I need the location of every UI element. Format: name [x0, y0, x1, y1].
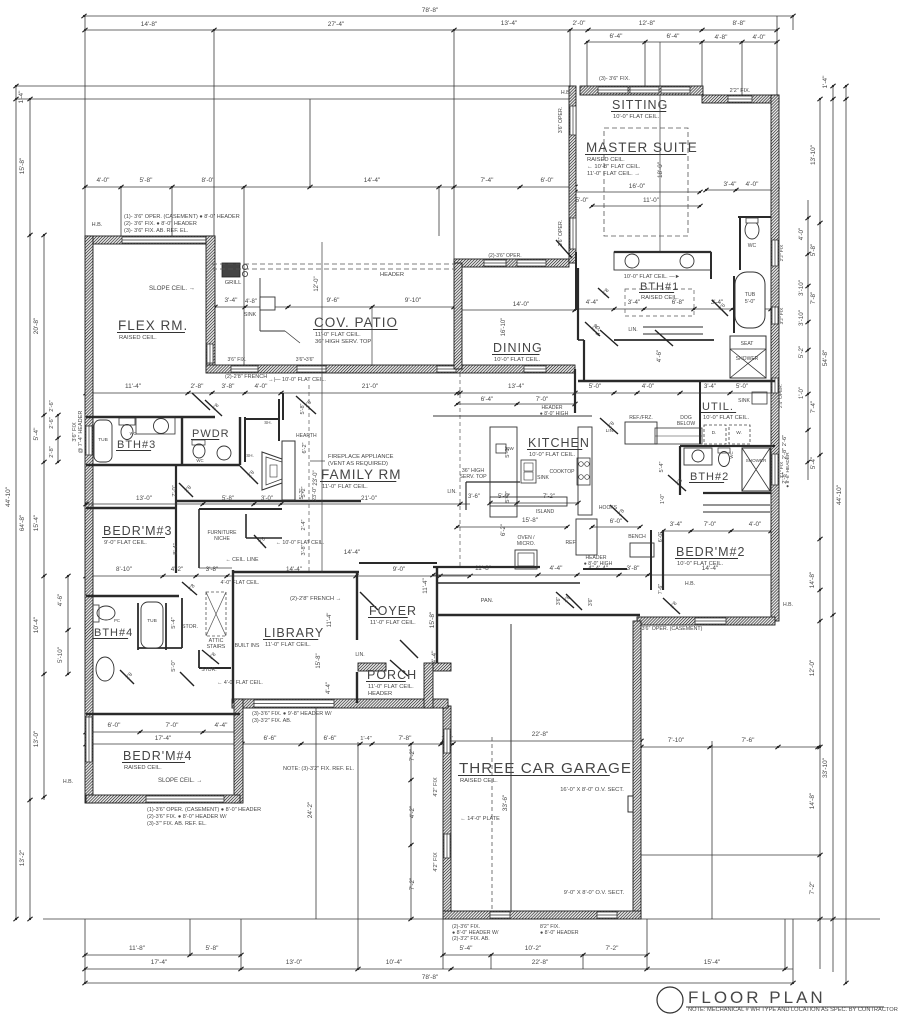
svg-text:HEADER: HEADER	[368, 691, 392, 697]
door: bth2	[668, 475, 686, 491]
svg-text:4'-0": 4'-0"	[97, 177, 111, 184]
wall: sitting bay north	[580, 86, 703, 95]
interior wall: bedrm3 east x176	[175, 464, 177, 573]
window: garage west 2	[444, 834, 450, 858]
svg-text:6'-4": 6'-4"	[610, 33, 624, 40]
family ceiling dashed + 23'-0	[308, 385, 310, 573]
svg-text:3'-8": 3'-8"	[206, 566, 218, 573]
svg-text:3'6" OPER.: 3'6" OPER.	[558, 107, 564, 134]
svg-text:H.B.: H.B.	[561, 90, 571, 96]
svg-text:3'-10": 3'-10"	[798, 280, 805, 296]
svg-text:20'-8": 20'-8"	[33, 317, 40, 334]
dashed: bth1 ceiling rect	[625, 289, 694, 316]
interior wall: util west x700	[699, 381, 701, 444]
svg-text:15'-8": 15'-8"	[522, 517, 538, 524]
wall: house west (flex down to bedrm4)	[85, 236, 93, 803]
svg-text:PWDR: PWDR	[192, 428, 230, 440]
svg-text:5'-8": 5'-8"	[140, 177, 154, 184]
svg-text:DINING: DINING	[493, 341, 543, 355]
svg-text:7'-4": 7'-4"	[810, 401, 817, 413]
left dimension verticals	[15, 86, 17, 919]
svg-text:STOR.: STOR.	[182, 624, 198, 630]
svg-text:4'-0": 4'-0"	[749, 521, 761, 528]
interior wall: hearth/family west	[244, 417, 246, 462]
svg-text:HEARTH: HEARTH	[296, 433, 317, 439]
kitchen dims y393 row	[457, 392, 775, 394]
vertical dim 18'-0 master	[659, 42, 661, 252]
fixture: ref/frz	[625, 422, 657, 444]
fixture: bench	[630, 543, 654, 557]
svg-text:TUB: TUB	[98, 437, 108, 443]
svg-text:6'-6": 6'-6"	[264, 735, 278, 742]
interior wall: hall header y569	[583, 568, 627, 570]
svg-text:MASTER SUITE: MASTER SUITE	[586, 140, 698, 155]
svg-text:33'-10": 33'-10"	[822, 757, 829, 778]
svg-text:SINK: SINK	[738, 398, 750, 404]
window: dining 2	[517, 260, 546, 266]
svg-text:13'-4": 13'-4"	[508, 383, 524, 390]
svg-text:13'-4": 13'-4"	[501, 20, 518, 27]
svg-text:7'-4": 7'-4"	[481, 177, 495, 184]
interior wall: pwdr east	[239, 417, 241, 465]
svg-text:78'-8": 78'-8"	[422, 974, 439, 981]
patio mid vline	[371, 307, 373, 366]
interior wall: bth1 south / util north y381	[578, 380, 775, 382]
fixture: attic stairs dashed	[206, 592, 226, 636]
svg-text:FLOOR PLAN: FLOOR PLAN	[688, 988, 826, 1007]
svg-text:7'-8": 7'-8"	[810, 292, 817, 304]
svg-text:(3)-3'2" FIX. AB.: (3)-3'2" FIX. AB.	[252, 718, 292, 724]
svg-text:3'-4": 3'-4"	[724, 181, 738, 188]
door: bth4	[120, 670, 134, 684]
svg-text:SERV. TOP: SERV. TOP	[459, 474, 487, 480]
svg-text:6'-0": 6'-0"	[541, 177, 555, 184]
door: niche	[254, 535, 266, 548]
door: attic	[202, 650, 219, 664]
fixture: bth4 wc	[97, 606, 115, 620]
svg-text:3'1" FIX: 3'1" FIX	[779, 461, 785, 479]
window: west wall bth3 tub	[86, 426, 92, 455]
bedrm2 closet shelves	[703, 504, 770, 506]
interior wall: library east lower	[356, 672, 358, 703]
wall: patio/family north	[206, 365, 575, 373]
family north dim row y393	[86, 392, 460, 394]
fixture: util washer dryer dashed	[704, 425, 726, 444]
svg-text:RAISED CEIL.: RAISED CEIL.	[587, 157, 625, 163]
svg-text:2'2" FIX: 2'2" FIX	[779, 244, 785, 262]
wall: garage east	[633, 621, 641, 918]
svg-text:● 8'-0" HIGH: ● 8'-0" HIGH	[540, 411, 569, 417]
svg-text:NOTE: (3)-3'2" FIX. REF. EL.: NOTE: (3)-3'2" FIX. REF. EL.	[283, 766, 355, 772]
svg-text:STAIRS: STAIRS	[207, 644, 226, 650]
door: bth1 r	[655, 330, 673, 346]
svg-text:BTH#2: BTH#2	[690, 471, 729, 483]
window: flex east lower	[207, 344, 213, 363]
fixture: master shower	[730, 336, 766, 378]
svg-text:5'-8": 5'-8"	[810, 244, 817, 256]
svg-text:SLOPE CEIL. →: SLOPE CEIL. →	[149, 285, 195, 292]
wall: garage east nub	[628, 796, 633, 812]
fixture: pwdr wc + sink	[193, 444, 205, 458]
fixture: kitchen sink	[521, 460, 536, 483]
svg-text:10'-0" FLAT CEIL.: 10'-0" FLAT CEIL.	[494, 357, 541, 363]
interior wall: kitchen/family y567	[433, 566, 540, 568]
garage interior line	[510, 624, 512, 911]
kitchen upper cab line y416	[433, 415, 592, 417]
svg-text:H.B.: H.B.	[92, 222, 103, 228]
window: east 1	[772, 240, 778, 266]
window: family north	[524, 366, 546, 372]
svg-text:5'-0": 5'-0"	[171, 660, 177, 671]
wall: library/porch south	[232, 699, 448, 708]
svg-text:BTH#4: BTH#4	[94, 627, 133, 639]
svg-text:7'-0": 7'-0"	[172, 485, 178, 496]
fixture: master tub	[735, 272, 765, 328]
svg-text:LIN.: LIN.	[447, 489, 456, 495]
svg-text:UTIL.: UTIL.	[702, 401, 734, 413]
svg-text:(2)-3'2" FIX. AB.: (2)-3'2" FIX. AB.	[452, 936, 490, 942]
svg-text:11'-0" FLAT CEIL.: 11'-0" FLAT CEIL.	[315, 332, 361, 338]
svg-text:6'-0": 6'-0"	[610, 518, 622, 525]
svg-text:W.: W.	[736, 430, 742, 436]
dashed: master ceiling break	[604, 128, 688, 236]
dashed: patio header line	[212, 263, 456, 265]
svg-text:LIBRARY: LIBRARY	[264, 626, 324, 640]
window: sitting 3	[661, 87, 690, 93]
svg-text:24'-2": 24'-2"	[307, 801, 314, 818]
interior wall: bth3 north (y415)	[86, 416, 215, 419]
svg-text:BTH#3: BTH#3	[117, 439, 156, 451]
fixture: master closet shelves	[466, 481, 520, 483]
svg-text:COV. PATIO: COV. PATIO	[314, 315, 398, 330]
fixture: bth4 shower oval	[96, 657, 114, 681]
svg-text:15'-4": 15'-4"	[704, 959, 721, 966]
svg-text:7'-8": 7'-8"	[399, 735, 413, 742]
svg-text:16'-10": 16'-10"	[501, 318, 507, 337]
svg-text:11'-4": 11'-4"	[422, 578, 429, 593]
svg-text:(3)- 3'6" FIX.: (3)- 3'6" FIX.	[599, 76, 630, 82]
window: east 3	[772, 378, 778, 393]
svg-text:SINK: SINK	[537, 475, 549, 481]
svg-text:15'-4": 15'-4"	[33, 514, 40, 531]
svg-text:(2)- 3'6" FIX. ● 8'-0" HEADER: (2)- 3'6" FIX. ● 8'-0" HEADER	[124, 221, 197, 227]
door: master entry	[556, 240, 572, 258]
patio serv counter	[259, 278, 261, 331]
svg-text:10'-4": 10'-4"	[33, 616, 40, 633]
svg-text:64'-8": 64'-8"	[19, 514, 26, 531]
svg-text:10'-0" FLAT CEIL.: 10'-0" FLAT CEIL.	[677, 561, 724, 567]
interior wall: library west	[232, 570, 234, 703]
door: butler 2	[585, 322, 600, 336]
svg-text:(1)- 3'6" OPER. (CASEMENT) ● 8: (1)- 3'6" OPER. (CASEMENT) ● 8'-0" HEADE…	[124, 214, 240, 220]
door: porch entry	[390, 660, 408, 676]
svg-text:4'-0" FLAT CEIL.: 4'-0" FLAT CEIL.	[221, 580, 260, 586]
svg-text:6'-6": 6'-6"	[324, 735, 338, 742]
svg-text:3'2" FIX: 3'2" FIX	[779, 307, 785, 325]
svg-text:2'-6": 2'-6"	[49, 400, 55, 411]
svg-text:@ 7'-4" HEADER: @ 7'-4" HEADER	[78, 411, 84, 454]
window: library south	[254, 700, 334, 707]
svg-text:● 8'-0" HEADER: ● 8'-0" HEADER	[540, 930, 579, 936]
wall: garage west	[443, 706, 451, 911]
svg-text:4'-4": 4'-4"	[550, 565, 564, 572]
svg-text:13'-0": 13'-0"	[136, 495, 152, 502]
svg-text:BEDR'M#3: BEDR'M#3	[103, 524, 172, 538]
svg-text:5'-2": 5'-2"	[301, 486, 307, 497]
interior wall: bth2 south y493	[703, 492, 771, 494]
patio dim row y307	[215, 306, 454, 308]
interior wall: bth1 south y340	[614, 339, 714, 341]
interior wall: bth2 west x680	[679, 446, 681, 495]
dashed: garage storage line	[491, 737, 493, 910]
svg-text:13'-0": 13'-0"	[286, 959, 303, 966]
svg-text:PC: PC	[114, 618, 120, 623]
door: foyer/family	[400, 640, 418, 658]
svg-text:SHOWER: SHOWER	[736, 356, 759, 362]
window: patio 3	[437, 366, 456, 372]
svg-text:3'-8": 3'-8"	[301, 544, 307, 555]
svg-text:RAISED CEIL.: RAISED CEIL.	[641, 295, 679, 301]
svg-text:18'-0": 18'-0"	[657, 162, 664, 178]
door: bedrm3	[240, 466, 258, 484]
wall: bedrm2 south	[637, 617, 775, 625]
svg-text:2'-0": 2'-0"	[573, 20, 587, 27]
kitchen 15'-8 dim row y527	[457, 526, 567, 528]
svg-text:BEDR'M#4: BEDR'M#4	[123, 749, 192, 763]
svg-text:← 14'-0" PLATE: ← 14'-0" PLATE	[460, 816, 500, 822]
svg-text:3'-4": 3'-4"	[628, 299, 640, 306]
window: garage south 1	[490, 912, 510, 918]
window: patio 2	[297, 366, 326, 372]
svg-text:● 8'-6" HEADER: ● 8'-6" HEADER	[785, 452, 791, 488]
svg-text:7'-6": 7'-6"	[658, 584, 664, 595]
svg-text:5'-4": 5'-4"	[810, 457, 817, 469]
svg-text:8'-4": 8'-4"	[173, 543, 179, 554]
svg-text:14'-8": 14'-8"	[141, 21, 158, 28]
bedrm4 dim rows	[86, 731, 237, 733]
svg-text:36" HIGH SERV. TOP: 36" HIGH SERV. TOP	[315, 339, 371, 345]
svg-text:5'-4": 5'-4"	[171, 617, 177, 628]
svg-text:10'-0" FLAT CEIL. —►: 10'-0" FLAT CEIL. —►	[624, 274, 680, 280]
svg-text:4'-4": 4'-4"	[326, 682, 332, 694]
svg-text:5'-8": 5'-8"	[206, 945, 220, 952]
svg-text:6'-2": 6'-2"	[501, 524, 507, 536]
svg-text:7'-2": 7'-2"	[606, 945, 620, 952]
door: pwdr	[205, 400, 222, 416]
svg-text:21'-0": 21'-0"	[361, 495, 377, 502]
svg-text:7'-6": 7'-6"	[742, 737, 756, 744]
svg-text:13'-10": 13'-10"	[810, 144, 817, 165]
svg-text:7'-0": 7'-0"	[166, 722, 180, 729]
svg-text:7'-10": 7'-10"	[668, 737, 685, 744]
svg-text:PORCH: PORCH	[367, 668, 417, 682]
svg-text:12'-0": 12'-0"	[314, 276, 320, 291]
fixture: kitchen center band	[578, 427, 592, 515]
svg-text:THREE CAR GARAGE: THREE CAR GARAGE	[459, 760, 632, 777]
svg-text:4'-6": 4'-6"	[57, 594, 64, 606]
svg-text:← CEIL. LINE: ← CEIL. LINE	[225, 557, 259, 563]
door: util	[600, 418, 618, 434]
svg-text:6'-2": 6'-2"	[302, 442, 308, 453]
window: east 4	[772, 454, 778, 485]
interior wall: wc nook left	[739, 217, 741, 270]
dimension line: overall width 78'-8" (top)	[84, 15, 793, 17]
svg-text:44'-10": 44'-10"	[5, 486, 12, 507]
svg-text:15'-8": 15'-8"	[316, 653, 322, 668]
bedrm3 dim row y576	[86, 575, 470, 577]
svg-text:5'-0": 5'-0"	[745, 299, 756, 305]
svg-text:4'-4": 4'-4"	[215, 722, 229, 729]
door: closet bth4	[180, 672, 194, 686]
svg-text:● 8'-0" HIGH: ● 8'-0" HIGH	[584, 561, 613, 567]
svg-text:4'2" FIX: 4'2" FIX	[433, 852, 439, 872]
dimension line: sitting bay 6'-4 / 6'-4 / 4'-8 / 4'-0	[587, 41, 777, 43]
svg-text:LIN.: LIN.	[355, 652, 364, 658]
fixture: kitchen island	[490, 497, 567, 506]
svg-text:SEAT: SEAT	[741, 341, 754, 347]
door: bedrm2	[610, 505, 628, 522]
svg-text:BEDR'M#2: BEDR'M#2	[676, 545, 745, 559]
svg-text:(2)-3'6" FIX. ● 8'-0" HEADER: (2)-3'6" FIX. ● 8'-0" HEADER W/	[147, 814, 227, 820]
svg-text:8'-8": 8'-8"	[733, 20, 747, 27]
fixture: ref 2	[576, 519, 597, 555]
svg-text:10'-2": 10'-2"	[525, 945, 542, 952]
svg-text:14'-4": 14'-4"	[364, 177, 381, 184]
fixture: kitchen west counter	[490, 427, 517, 517]
svg-text:14'-8": 14'-8"	[809, 571, 816, 588]
svg-text:BTH#1: BTH#1	[640, 281, 679, 293]
svg-text:7'-0": 7'-0"	[536, 396, 548, 403]
window: patio 1	[231, 366, 258, 372]
svg-text:2'4" OPER.: 2'4" OPER.	[778, 384, 784, 408]
interior wall: pantry south y615	[437, 614, 640, 616]
door: bth1 l	[600, 330, 618, 346]
svg-text:1'-0": 1'-0"	[660, 494, 666, 504]
fixture: oven micro	[515, 550, 537, 569]
svg-text:5'-4": 5'-4"	[33, 427, 40, 441]
wall: flex east	[206, 236, 215, 371]
svg-text:(VENT AS REQUIRED): (VENT AS REQUIRED)	[328, 461, 388, 467]
svg-text:9'-0" X 8'-0" O.V. SECT.: 9'-0" X 8'-0" O.V. SECT.	[564, 890, 625, 896]
fixture: master wc	[745, 221, 759, 239]
interior wall: bedrm3 north y508	[86, 507, 176, 509]
svg-text:3'-4": 3'-4"	[670, 521, 682, 528]
svg-text:78'-8": 78'-8"	[422, 7, 439, 14]
svg-text:RAISED CEIL.: RAISED CEIL.	[124, 765, 162, 771]
svg-text:WC: WC	[729, 451, 734, 458]
interior wall: util west x575	[574, 369, 576, 413]
svg-text:→|— 10'-0" FLAT CEIL.: →|— 10'-0" FLAT CEIL.	[268, 377, 326, 383]
wall: house east	[771, 95, 779, 621]
interior wall: master west lower stub	[575, 252, 577, 310]
svg-text:11'-4": 11'-4"	[327, 613, 333, 628]
svg-text:4'-0": 4'-0"	[753, 34, 767, 41]
svg-text:13'-0": 13'-0"	[33, 730, 40, 747]
svg-text:2'2" FIX.: 2'2" FIX.	[730, 88, 751, 94]
svg-text:3'6" FIX.: 3'6" FIX.	[228, 357, 247, 363]
svg-text:4'-4": 4'-4"	[586, 299, 598, 306]
svg-text:← 10'-0" FLAT CEIL.: ← 10'-0" FLAT CEIL.	[276, 540, 325, 546]
fixture: bth4 tub	[141, 602, 163, 648]
window: west wall bedrm4	[86, 717, 92, 762]
svg-text:11'-8": 11'-8"	[129, 945, 146, 952]
svg-text:10'-4": 10'-4"	[386, 959, 403, 966]
svg-text:17'-4": 17'-4"	[155, 735, 172, 742]
svg-text:ISLAND: ISLAND	[536, 509, 555, 515]
fixture: hearth slab	[282, 441, 295, 500]
svg-text:3'-8": 3'-8"	[627, 565, 641, 572]
wall: bedrm4 east	[234, 699, 243, 803]
svg-text:PAN.: PAN.	[481, 598, 494, 604]
interior wall: bth3 south (y463)	[86, 464, 240, 467]
bottom dimension row 2	[85, 968, 793, 970]
svg-text:9'-6": 9'-6"	[327, 297, 341, 304]
svg-text:4'-0": 4'-0"	[798, 228, 805, 240]
svg-text:KITCHEN: KITCHEN	[528, 436, 590, 450]
svg-text:(3)-3'" FIX. AB. REF. EL.: (3)-3'" FIX. AB. REF. EL.	[147, 821, 207, 827]
svg-text:1'-4": 1'-4"	[18, 90, 25, 104]
svg-text:22'-8": 22'-8"	[532, 731, 549, 738]
svg-text:6'-0": 6'-0"	[658, 532, 664, 543]
fixture: bth3 tub	[94, 420, 112, 462]
dim verticals y187 row	[120, 187, 122, 236]
svg-text:← 10'-8" FLAT CEIL.: ← 10'-8" FLAT CEIL.	[587, 164, 641, 170]
svg-text:14'-8": 14'-8"	[809, 792, 816, 809]
bedrm4 north wall	[86, 713, 240, 715]
svg-text:4'-0": 4'-0"	[255, 383, 269, 390]
svg-text:STOR.: STOR.	[201, 667, 216, 673]
interior wall: bedrm2 west upper x663	[662, 531, 664, 590]
svg-text:16'-0" X 8'-0" O.V. SECT.: 16'-0" X 8'-0" O.V. SECT.	[560, 787, 624, 793]
bottom overall 78'-8	[85, 982, 793, 984]
svg-text:12'-8": 12'-8"	[639, 20, 656, 27]
wall: master west	[569, 86, 576, 263]
svg-text:4'-6": 4'-6"	[656, 350, 663, 362]
dimension line: 1'-4 pair upper left	[16, 85, 574, 87]
svg-text:(2)-2'8" FRENCH: (2)-2'8" FRENCH	[225, 374, 267, 380]
bottom extension verticals	[189, 919, 191, 955]
svg-text:RAISED CEIL.: RAISED CEIL.	[119, 335, 157, 341]
svg-text:16'-0": 16'-0"	[629, 183, 646, 190]
dashed family/kitchen line	[459, 373, 461, 568]
bedrm2 dim row y531	[663, 530, 776, 532]
pantry/kitchen dim row y575	[433, 574, 775, 576]
svg-text:REF.: REF.	[566, 540, 577, 546]
door: butler 1	[598, 288, 609, 298]
svg-text:BELOW: BELOW	[677, 421, 695, 427]
svg-text:WC: WC	[196, 458, 203, 463]
svg-text:5'-8": 5'-8"	[222, 496, 234, 502]
svg-text:8'-0": 8'-0"	[202, 177, 216, 184]
fixture: bth2 vanity sink + wc	[684, 448, 712, 465]
window: sitting 2	[630, 87, 659, 93]
window: garage south 2	[597, 912, 617, 918]
interior wall: library east upper	[356, 572, 358, 640]
interior wall: library north	[233, 571, 359, 574]
wall: master ne	[702, 95, 779, 103]
porch right dims	[410, 744, 412, 919]
window: master west 2	[570, 218, 576, 249]
svg-text:4'-0": 4'-0"	[642, 383, 654, 390]
svg-text:8'-10": 8'-10"	[116, 566, 132, 573]
garage right dims	[641, 746, 820, 748]
svg-text:← 4'-0" FLAT CEIL.: ← 4'-0" FLAT CEIL.	[217, 680, 263, 686]
door: wic	[712, 300, 728, 316]
svg-text:SLOPE CEIL. →: SLOPE CEIL. →	[158, 778, 202, 784]
svg-text:23'-0": 23'-0"	[313, 470, 319, 485]
door: garage entry	[556, 592, 574, 608]
svg-text:4'2" FIX: 4'2" FIX	[433, 777, 439, 797]
